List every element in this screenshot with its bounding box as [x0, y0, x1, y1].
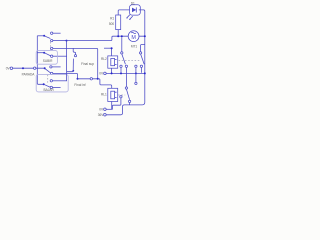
wire SW2 upper contact to right	[53, 48, 98, 78]
svg-text:RL2: RL2	[101, 57, 107, 61]
mech link SUBIR	[50, 42, 52, 51]
switch BAJAR pole 1	[45, 68, 51, 73]
switch SUBIR pole 2	[37, 52, 44, 54]
node junction A	[66, 40, 68, 42]
svg-text:R1: R1	[110, 16, 114, 20]
svg-text:Final inf: Final inf	[74, 83, 85, 87]
node dots motor line	[117, 35, 119, 37]
relay contact RL2 pole 1	[121, 52, 123, 54]
mech link BAJAR	[47, 75, 49, 83]
switch Final sup	[73, 48, 75, 54]
box SUBIR	[36, 50, 57, 64]
wire left feeder vertical	[37, 36, 43, 85]
svg-text:PARADA: PARADA	[22, 72, 36, 76]
svg-text:36V: 36V	[98, 113, 105, 117]
svg-text:D1: D1	[131, 1, 135, 5]
LED D1	[130, 5, 141, 15]
switch PARADA (closed, in line)	[22, 67, 24, 69]
switch SUBIR pole 1	[43, 35, 45, 37]
relay coil RL1	[108, 88, 118, 101]
motor MT1	[128, 35, 144, 37]
svg-text:BAJAR: BAJAR	[44, 88, 55, 92]
relay coil RL2	[111, 48, 113, 73]
svg-text:500: 500	[109, 22, 115, 26]
switch Final inf (closed)	[78, 78, 98, 80]
relay contact RL1	[125, 87, 127, 89]
wire mid vertical bus	[66, 41, 68, 81]
wire to motor line	[67, 36, 129, 40]
wire 0V bus	[106, 72, 145, 74]
wire BAJAR upper contact to Final inf	[67, 73, 78, 78]
relay contact RL2 pole 2	[139, 52, 141, 54]
wire motor line to RL2 contact 1	[121, 37, 123, 51]
node junction rail/SW3	[44, 67, 46, 69]
svg-text:SUBIR: SUBIR	[43, 59, 53, 63]
wire to RL1 coil	[98, 79, 112, 89]
box BAJAR	[36, 74, 68, 92]
resistor R1	[118, 10, 130, 15]
wire 36V	[106, 102, 145, 115]
mech link RL2 to contacts	[119, 59, 140, 61]
switch BAJAR pole 2	[43, 83, 45, 85]
wire RL2 c2 top link	[141, 45, 145, 52]
svg-text:RL1: RL1	[101, 92, 107, 96]
wire SW1 common	[37, 35, 44, 37]
svg-text:MT1: MT1	[131, 44, 138, 48]
svg-text:Final sup: Final sup	[81, 62, 94, 66]
wire 0V rail	[13, 67, 45, 69]
svg-text:M: M	[131, 35, 136, 41]
mech link RL1 to contact	[118, 94, 125, 96]
node junction B	[77, 78, 79, 80]
